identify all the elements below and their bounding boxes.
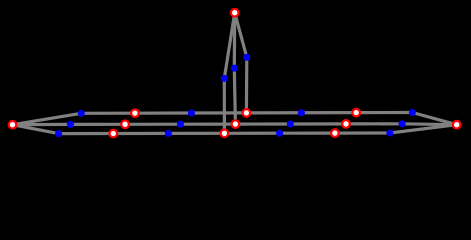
edge T1-T2 [81,112,135,115]
graph drawing: three parallel chains between two hubs plus apex antenna [0,0,471,149]
node B5 (blue) [276,130,283,137]
edge a3-B4 [223,78,226,133]
edge L-B1 [13,125,59,134]
node B2 (red ring) [110,130,118,138]
node a2 (blue) [231,65,238,72]
edge T3-T4 [191,111,246,114]
node B1 (blue) [55,130,62,137]
edge B3-B4 [168,132,224,135]
node a3 (blue) [221,75,228,82]
edge B2-B3 [113,132,168,135]
node B7 (blue) [386,129,393,136]
edge B5-B6 [280,132,335,135]
node T7 (blue) [409,109,416,116]
node T5 (blue) [298,109,305,116]
node M7 (blue) [399,120,406,127]
node T1 (blue) [78,110,85,117]
edge M4-M5 [235,122,290,125]
edge M2-M3 [125,123,180,126]
node M5 (blue) [287,120,294,127]
node B4 (red ring) [221,130,229,138]
node M6 (red ring) [342,120,350,128]
edge B4-B5 [224,132,279,135]
edge A-a1 [235,13,247,58]
node B6 (red ring) [331,129,339,137]
node apex A (red ring) [231,9,239,17]
node M2 (red ring) [121,121,129,129]
edge B7-R [390,125,457,133]
edge T6-T7 [356,111,412,114]
node left hub L (red ring) [9,121,17,129]
edge L-M1 [13,123,71,126]
edge A-a3 [224,13,234,79]
node right hub R (red ring) [453,121,461,129]
edge L-T1 [13,113,82,124]
node M3 (blue) [177,121,184,128]
edge M3-M4 [180,122,235,125]
edge A-a2 [233,13,237,68]
node B3 (blue) [165,130,172,137]
edge M5-M6 [290,122,346,125]
edge a2-M4 [234,68,235,124]
edge T2-T3 [135,111,192,114]
edge T5-T6 [301,111,356,114]
edge M7-R [402,122,457,126]
edge T4-T5 [246,111,301,114]
node T6 (red ring) [352,109,360,117]
edge M1-M2 [70,123,125,126]
node T4 (red ring) [243,109,251,117]
node a1 (blue) [243,54,250,61]
node T2 (red ring) [131,109,139,117]
node M4 (red ring) [232,120,240,128]
node M1 (blue) [67,121,74,128]
edge T7-R [412,113,456,125]
edge M6-M7 [346,122,402,125]
edge B1-B2 [59,132,114,135]
node T3 (blue) [188,109,195,116]
edge a1-T4 [245,57,249,113]
edge B6-B7 [335,131,390,134]
